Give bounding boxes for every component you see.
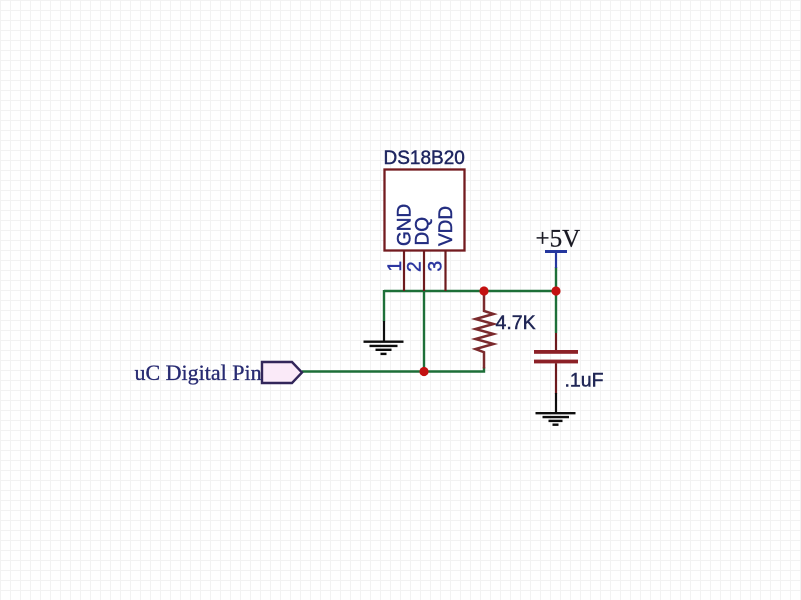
IC U1 DS18B20 box	[385, 170, 465, 251]
pin number 1	[385, 261, 406, 272]
junction dot at +5V rail	[551, 286, 560, 295]
wire VDD net: pins to +5V rail	[384, 290, 556, 292]
label .1uF	[565, 370, 604, 392]
svg-text:2: 2	[405, 261, 426, 272]
pin 2 stub DQ	[423, 251, 425, 292]
wire pin1 to ground drop	[383, 290, 385, 322]
svg-text:.1uF: .1uF	[565, 370, 604, 392]
svg-text:4.7K: 4.7K	[496, 312, 536, 334]
wire uC Digital Pin to resistor bottom	[302, 367, 484, 372]
svg-text:uC Digital Pin: uC Digital Pin	[135, 360, 262, 385]
wire DQ drop pin2 to uC net	[423, 291, 425, 372]
svg-text:3: 3	[426, 261, 447, 272]
svg-text:DQ: DQ	[413, 217, 434, 246]
pin number 2	[405, 261, 426, 272]
pin label GND	[395, 204, 416, 246]
pin number 3	[426, 261, 447, 272]
label 4.7K	[496, 312, 536, 334]
ground symbol below pin 1	[364, 321, 404, 354]
resistor R1 4.7K	[476, 294, 494, 369]
svg-text:VDD: VDD	[436, 206, 457, 246]
junction dot at resistor top	[479, 286, 488, 295]
svg-text:1: 1	[385, 261, 406, 272]
svg-text:+5V: +5V	[536, 226, 581, 253]
junction dot at DQ and uC wire	[419, 367, 428, 376]
label +5V	[536, 226, 581, 253]
pin label VDD	[436, 206, 457, 246]
capacitor C1 .1uF	[534, 333, 578, 394]
connector uC Digital Pin	[262, 362, 302, 383]
pin 3 stub VDD	[444, 251, 446, 292]
wire +5V drop to rail and capacitor	[555, 267, 557, 333]
pin 1 stub GND	[403, 251, 405, 292]
label DS18B20	[384, 148, 465, 169]
label uC Digital Pin	[135, 360, 262, 385]
power +5V symbol	[545, 252, 567, 269]
ground symbol below capacitor	[536, 393, 576, 425]
pin label DQ	[413, 217, 434, 246]
svg-text:DS18B20: DS18B20	[384, 148, 465, 169]
